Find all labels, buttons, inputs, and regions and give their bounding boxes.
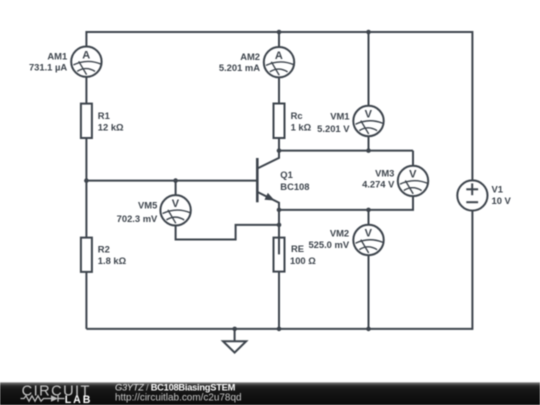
wire AM2 to Rc [278,77,280,103]
junction dot base VM5 tap [173,178,178,183]
junction dot emitter rail VM2 [366,208,371,213]
footer bar [0,382,540,405]
svg-text:V1: V1 [492,184,503,195]
wire VM5 top lead [175,181,177,196]
svg-text:R2: R2 [98,244,110,255]
voltmeter VM1 [353,106,383,136]
svg-text:10 V: 10 V [492,195,512,206]
svg-text:12 kΩ: 12 kΩ [98,121,124,132]
label R2 1.8 kΩ [98,244,127,267]
svg-text:A: A [82,49,90,61]
svg-text:Q1: Q1 [280,169,293,180]
svg-text:BC108: BC108 [280,181,309,192]
wire VM1 bottom lead [368,136,370,150]
svg-text:V: V [172,198,180,210]
wire VM3 bottom to emitter rail [279,196,413,210]
wire AM2 top lead [278,32,280,47]
label Q1 BC108 [280,169,309,192]
wire R2 to bottom rail [85,272,87,329]
wire bottom rail [86,328,472,330]
resistor Rc [274,104,285,139]
label AM2 5.201 mA [219,51,260,73]
junction dot bottom rail ground [232,327,237,332]
voltmeter VM2 [353,225,383,255]
svg-text:A: A [275,50,283,62]
wire VM2 bottom lead [368,255,370,329]
resistor R1 [81,104,92,138]
label VM2 525.0 mV [308,227,349,250]
svg-text:1.8 kΩ: 1.8 kΩ [98,255,127,266]
svg-text:http://circuitlab.com/c2u78qd: http://circuitlab.com/c2u78qd [115,393,242,404]
svg-text:AM1: AM1 [47,51,67,62]
svg-text:V: V [409,169,417,181]
junction dot collector node [277,148,282,153]
svg-text:5.201 V: 5.201 V [317,123,350,134]
junction dot VM5 emitter tap [277,223,282,228]
voltmeter VM3 [398,166,428,196]
label AM1 731.1 µA [29,51,67,73]
svg-text:V: V [365,228,373,240]
svg-text:525.0 mV: 525.0 mV [308,239,349,250]
wire VM5 bottom loop [176,225,279,240]
wire V1 top lead [471,31,473,180]
svg-text:5.201 mA: 5.201 mA [219,62,260,73]
label R1 12 kΩ [98,110,124,133]
svg-text:RE: RE [291,243,304,254]
junction dot emitter node [277,208,282,213]
label V1 10 V [492,184,512,207]
wire collector rail [279,150,413,152]
junction dot base left [84,178,89,183]
resistor R2 [81,238,92,272]
label VM5 702.3 mV [117,200,158,225]
voltmeter VM5 [160,195,190,225]
junction dot collector rail VM1 [366,148,371,153]
ground [223,329,246,353]
wire VM3 top lead [412,151,414,166]
wire left rail R1 to R2 [85,138,87,238]
label VM3 4.274 V [362,168,395,190]
junction dot top rail AM2 branch [277,30,282,35]
wire top rail [86,31,472,33]
svg-text:VM2: VM2 [330,227,349,238]
wire Rc to collector node [278,138,280,151]
junction dot bottom rail RE [277,327,282,332]
wire VM1 top lead [368,32,370,106]
wire V1 bottom lead [471,211,473,330]
ammeter AM2 [264,47,294,77]
svg-text:AM2: AM2 [240,51,260,62]
label RE 100 Ω [290,243,316,266]
svg-text:731.1 µA: 731.1 µA [29,61,67,72]
svg-text:R1: R1 [98,110,110,121]
wire VM2 top lead [368,210,370,225]
svg-text:VM5: VM5 [138,200,157,211]
junction dot top rail VM1 branch [366,30,371,35]
svg-text:LAB: LAB [65,394,92,405]
svg-text:VM3: VM3 [375,168,394,179]
svg-text:V: V [365,109,373,121]
ammeter AM1 [71,47,101,77]
junction dot bottom rail VM2 [366,327,371,332]
svg-text:G3YTZ / BC108BiasingSTEM: G3YTZ / BC108BiasingSTEM [115,383,236,393]
label Rc 1 kΩ [291,110,312,133]
resistor RE [274,238,285,272]
transistor Q1 [257,151,279,255]
wire AM1 top lead [85,31,87,47]
svg-text:1 kΩ: 1 kΩ [291,122,312,133]
wire RE bottom lead [278,271,280,329]
svg-text:VM1: VM1 [330,111,349,122]
svg-text:100 Ω: 100 Ω [290,255,316,266]
voltage source V1 [457,180,487,210]
svg-text:702.3 mV: 702.3 mV [117,213,158,224]
CircuitLab logo resistor zigzag and diode [21,395,65,401]
svg-text:4.274 V: 4.274 V [362,178,395,189]
wire base [86,180,257,182]
svg-text:Rc: Rc [291,110,303,121]
wire AM1 to R1 [85,77,87,104]
label VM1 5.201 V [317,111,350,134]
